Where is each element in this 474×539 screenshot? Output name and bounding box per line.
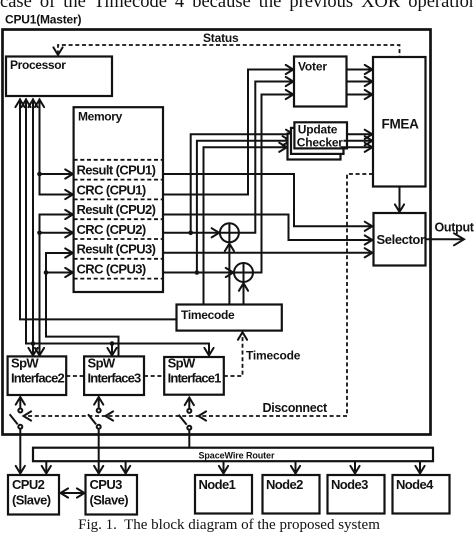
- dashed link SpW Interface3 to SpW Interface1: [144, 375, 164, 377]
- outer enclosure box CPU1: [3, 30, 431, 435]
- svg-text:SpW: SpW: [168, 356, 196, 371]
- box Node4: [393, 475, 450, 514]
- box Update Checker (stacked, back): [288, 134, 341, 160]
- svg-text:Result (CPU3): Result (CPU3): [77, 242, 156, 257]
- box Node1: [195, 475, 252, 514]
- svg-text:Memory: Memory: [78, 110, 123, 124]
- svg-text:Result (CPU2): Result (CPU2): [77, 202, 156, 217]
- switch under SpW Interface3: [88, 397, 103, 429]
- wire CRC(CPU3) to XOR gate 2 and Update Checker input 2: [163, 136, 290, 277]
- svg-text:Node2: Node2: [266, 477, 303, 492]
- box SpaceWire Router: [33, 448, 433, 462]
- wire router to Node2: [291, 461, 300, 473]
- memory row separators (dashed): [74, 160, 163, 279]
- svg-text:CPU1(Master): CPU1(Master): [5, 13, 81, 27]
- wire router to Node1: [219, 461, 228, 473]
- wire switch3 to CPU3 (crosses router): [94, 429, 103, 474]
- svg-text:Disconnect: Disconnect: [263, 401, 329, 415]
- svg-text:Interface2: Interface2: [11, 371, 65, 386]
- XOR gate 1: [220, 223, 239, 304]
- wire: dashed Status line from FMEA top to Processor top: [53, 45, 399, 57]
- svg-text:SpaceWire Router: SpaceWire Router: [199, 450, 275, 460]
- box SpW Interface3: [84, 356, 144, 396]
- svg-text:(Slave): (Slave): [12, 493, 51, 508]
- wire F: SpW Interface3 up to rows Result(CPU3) and CRC(CPU3): [44, 248, 119, 356]
- wire Result(CPU2) to Selector input 2: [163, 215, 372, 245]
- box Voter: [294, 57, 347, 107]
- switch under SpW Interface1: [179, 398, 194, 430]
- wire XOR2 output to Voter input 3: [253, 90, 293, 273]
- svg-text:CRC (CPU2): CRC (CPU2): [77, 222, 146, 237]
- svg-text:CRC (CPU3): CRC (CPU3): [77, 262, 146, 277]
- box SpW Interface2: [8, 356, 67, 396]
- svg-text:Node1: Node1: [199, 477, 236, 492]
- figure caption: [0, 517, 458, 534]
- box Update Checker (stacked, middle): [291, 128, 344, 154]
- svg-text:Checker: Checker: [297, 136, 343, 150]
- wire C: Processor to SpW Interface2 (arrows both ends): [28, 99, 37, 356]
- svg-text:SpW: SpW: [88, 356, 116, 371]
- svg-text:Timecode: Timecode: [181, 308, 235, 322]
- wire B: Processor down, bus to SpW Interface1 (arrows both ends): [21, 99, 213, 356]
- box Node2: [263, 475, 320, 514]
- cropped paper body text at top: [0, 0, 474, 13]
- svg-text:(Slave): (Slave): [90, 493, 129, 508]
- wires Voter outputs to FMEA (3 arrows): [347, 65, 373, 99]
- svg-text:Status: Status: [203, 31, 239, 45]
- wire CPU2 to CPU3 (double arrow): [61, 488, 85, 497]
- svg-text:Selector: Selector: [377, 232, 425, 247]
- box CPU2 (Slave): [8, 475, 59, 515]
- wire router to CPU3: [121, 461, 130, 473]
- dashed Disconnect wire from FMEA to the three switches: [24, 174, 374, 421]
- svg-text:CPU3: CPU3: [90, 477, 123, 492]
- switch under SpW Interface2: [10, 397, 25, 429]
- wire D: Processor to memory rows Result(CPU1) and CRC(CPU1): [35, 99, 73, 200]
- wire CRC(CPU1) to Voter input 1: [163, 65, 293, 195]
- box FMEA: [373, 57, 426, 187]
- svg-text:CPU2: CPU2: [12, 477, 45, 492]
- wire router to CPU2: [42, 461, 51, 473]
- junction dot on bus B at wire C crossing: [31, 341, 36, 346]
- wire XOR1 output to Voter input 2: [239, 77, 293, 233]
- wire switch1 to SpaceWire Router: [188, 430, 190, 448]
- svg-text:FMEA: FMEA: [382, 117, 420, 132]
- box Memory: [74, 107, 163, 292]
- box Selector: [374, 213, 426, 266]
- wire FMEA to Selector (down arrow): [395, 187, 404, 213]
- wire router to Node4: [415, 461, 424, 473]
- junction dot on bus B at SpW Interface3 branch: [107, 341, 116, 355]
- box Timecode: [177, 305, 282, 331]
- svg-text:Output: Output: [435, 221, 474, 235]
- box CPU3 (Slave): [86, 475, 138, 515]
- dashed Timecode wire from SpW Interface1 to Timecode box: [224, 332, 247, 376]
- svg-text:Update: Update: [298, 123, 338, 137]
- svg-text:Interface1: Interface1: [168, 371, 222, 386]
- box Processor: [6, 57, 112, 97]
- svg-text:Node4: Node4: [396, 477, 434, 492]
- wire Selector to Output: [426, 233, 465, 245]
- box Update Checker (front): [294, 122, 347, 149]
- svg-text:Interface3: Interface3: [88, 371, 142, 386]
- wire switch2 to CPU2: [16, 429, 25, 474]
- box Node3: [328, 475, 385, 514]
- svg-text:Timecode: Timecode: [246, 349, 301, 363]
- XOR gate 2: [234, 263, 253, 305]
- dashed link SpW Interface2 to SpW Interface3: [66, 375, 84, 377]
- box SpW Interface1: [164, 356, 224, 395]
- wire Timecode to Update Checker input 3: [204, 143, 287, 305]
- svg-text:Processor: Processor: [10, 58, 66, 72]
- svg-text:Voter: Voter: [298, 60, 327, 74]
- wire A: Timecode box to Processor (up arrow): [15, 99, 176, 320]
- wire E: SpW Interface2 up to rows Result(CPU2) and CRC(CPU2): [35, 210, 73, 356]
- wire router to Node3: [350, 461, 359, 473]
- wires Update Checker outputs to FMEA (3 arrows): [341, 130, 373, 152]
- svg-text:SpW: SpW: [11, 356, 39, 371]
- svg-text:CRC (CPU1): CRC (CPU1): [77, 182, 146, 197]
- wire Result(CPU1) to Selector input 1: [163, 174, 372, 231]
- wire Result(CPU3) to Selector input 3: [163, 248, 372, 257]
- svg-text:Result (CPU1): Result (CPU1): [77, 163, 156, 178]
- wire CRC(CPU2) to XOR gate 1 and Update Checker input 1: [163, 130, 294, 238]
- svg-text:Node3: Node3: [331, 477, 368, 492]
